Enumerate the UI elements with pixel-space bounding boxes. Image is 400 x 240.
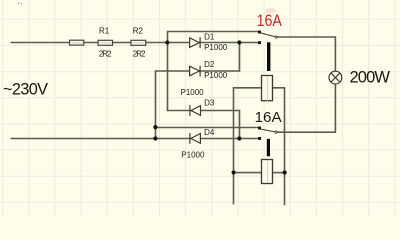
wire N riser and D2 row to node B (156, 43, 240, 139)
wire neutral N line through D4 row (11, 138, 260, 140)
svg-text:D3: D3 (204, 98, 215, 107)
svg-text:P1000: P1000 (181, 88, 205, 97)
wire L main line (11, 42, 260, 44)
relay switch S2 contacts (258, 127, 261, 140)
relay coil K1 (262, 76, 273, 101)
svg-text:P1000: P1000 (204, 71, 228, 80)
junction node B (237, 40, 241, 44)
wire coil K2 left pin (234, 172, 263, 174)
svg-text:16A: 16A (257, 11, 283, 30)
svg-text:D2: D2 (204, 60, 215, 69)
resistor R1 (98, 40, 112, 45)
wire coil K1 left pin down (234, 88, 263, 205)
svg-text:16A: 16A (255, 109, 282, 126)
diode D1 (190, 37, 201, 48)
wire node A up to switch S1 top contact (168, 32, 260, 43)
diode D2 (190, 66, 201, 77)
relay switch S2 pivot (275, 131, 277, 133)
svg-text:P1000: P1000 (181, 150, 205, 159)
svg-text:200W: 200W (350, 69, 391, 87)
svg-text:R1: R1 (99, 27, 110, 36)
relay K2 actuator bar (267, 139, 270, 156)
wire node A down and D3 row to D4 row (168, 43, 240, 139)
svg-text:2R2: 2R2 (133, 49, 146, 58)
relay K1 actuator bar (267, 42, 270, 71)
svg-text:~230V: ~230V (3, 80, 48, 98)
svg-text:D1: D1 (204, 32, 215, 41)
wire coil K2 right pin (273, 172, 285, 174)
fuse F1 (70, 40, 84, 45)
junction coil K2 left (232, 170, 236, 174)
relay switch S1 pivot (275, 36, 277, 38)
dust specks top left (18, 3, 22, 5)
wire coil K1 right pin down (273, 88, 285, 206)
relay switch S1 blade (261, 33, 275, 37)
junction N riser top (153, 125, 157, 129)
relay switch S2 blade (261, 129, 275, 132)
pink smudge above 16A (265, 8, 275, 13)
wire switch S2 top contact line (156, 127, 260, 129)
junction N riser bottom (153, 136, 157, 140)
junction coil K2 right (283, 170, 287, 174)
svg-text:R2: R2 (133, 27, 144, 36)
junction D3-D4 link (237, 136, 241, 140)
junction node A (165, 40, 169, 44)
resistor R2 (131, 40, 146, 45)
diode D3 (190, 105, 201, 116)
lamp LP1 (329, 71, 342, 84)
wire switch S1 pole to lamp top (277, 37, 335, 71)
diode D4 (190, 133, 201, 144)
svg-text:D4: D4 (204, 128, 215, 137)
relay switch S1 contacts (258, 31, 261, 45)
svg-text:P1000: P1000 (204, 43, 228, 52)
wire lamp bottom to switch S2 pole (277, 84, 335, 132)
relay coil K2 (262, 160, 273, 184)
svg-text:2R2: 2R2 (99, 49, 112, 58)
